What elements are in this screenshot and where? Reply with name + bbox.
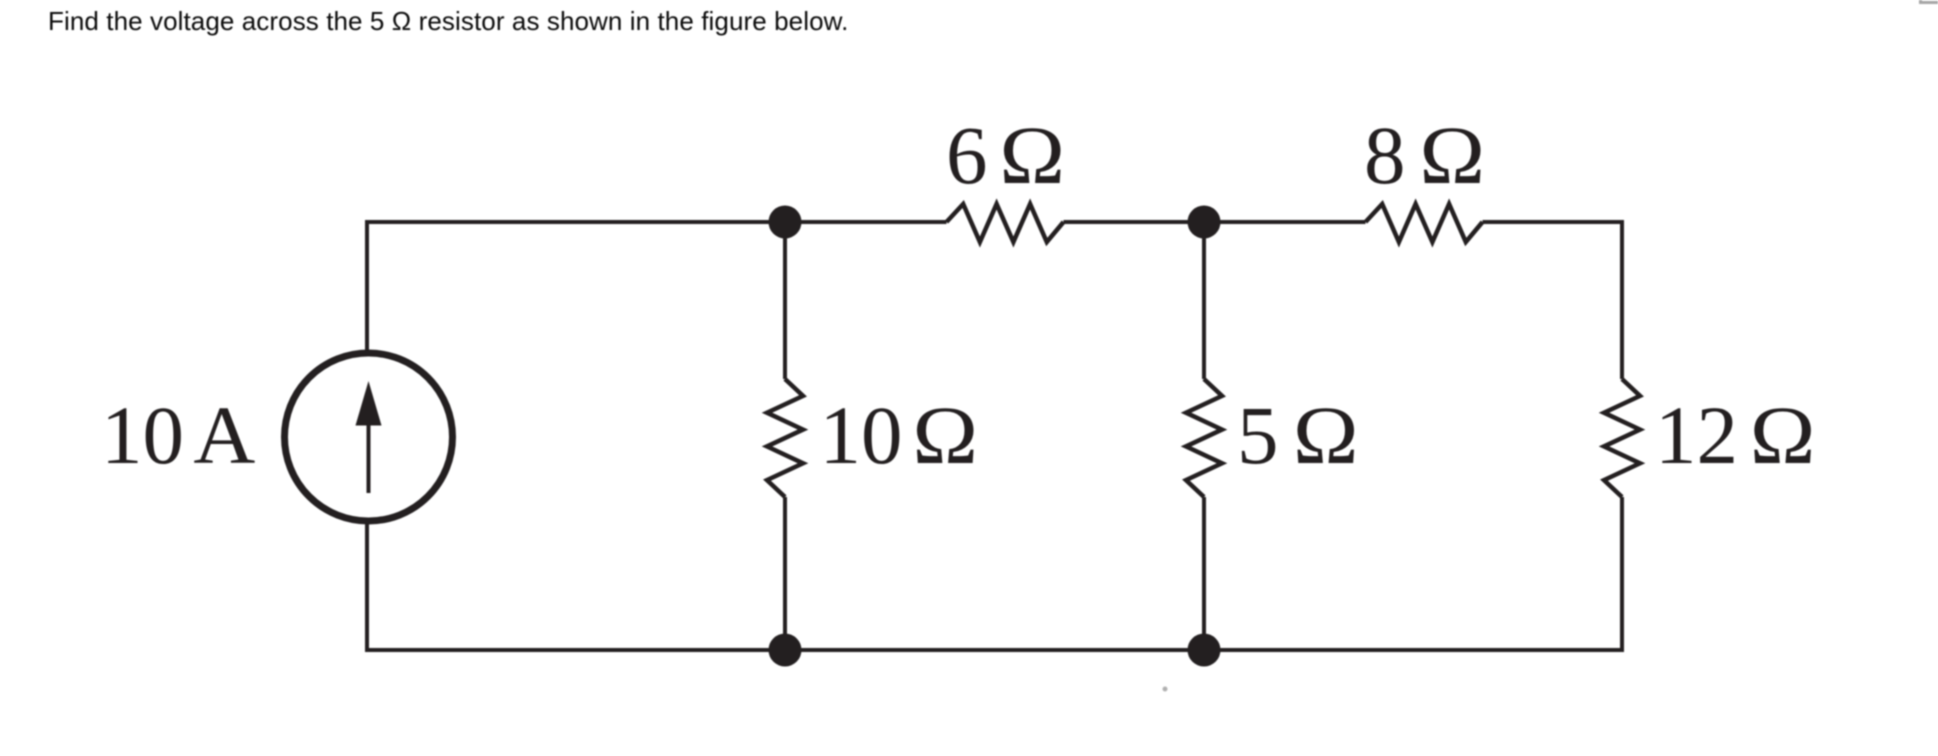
svg-text:5: 5 [1237,389,1279,481]
svg-text:Ω: Ω [999,109,1065,201]
svg-text:10: 10 [101,389,184,481]
svg-text:Ω: Ω [912,389,978,481]
svg-text:12: 12 [1655,389,1738,481]
svg-text:A: A [193,389,255,481]
svg-text:6: 6 [946,109,988,201]
svg-text:Find the voltage across the 5: Find the voltage across the 5 Ω resistor… [48,6,848,36]
svg-text:Ω: Ω [1293,389,1359,481]
svg-text:Ω: Ω [1750,389,1816,481]
svg-text:10: 10 [820,389,903,481]
svg-text:8: 8 [1364,109,1406,201]
svg-text:Ω: Ω [1419,109,1485,201]
